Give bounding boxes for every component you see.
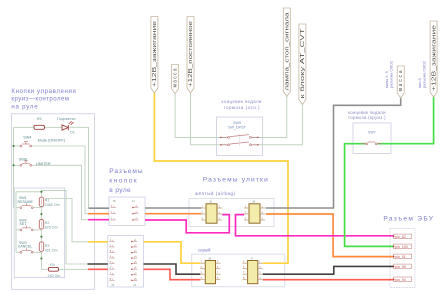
ECU pin_94 bbox=[393, 277, 411, 282]
svg-text:R3: R3 bbox=[45, 244, 50, 248]
wire yellow: +12V ignition flag to gray clockspring D pin1 bbox=[154, 93, 288, 263]
connector B clockspring yellow right bbox=[244, 200, 265, 224]
switch SW7 cruise brake bbox=[361, 130, 382, 144]
box: clockspring yellow airbag connectors bbox=[189, 199, 274, 227]
wire green: +12V ignition right flag through SW7 to ECU pin2 bbox=[378, 97, 434, 144]
wire: R4 branch bbox=[41, 268, 48, 270]
box: connector J5/J4 (wheel buttons top) bbox=[109, 197, 145, 226]
switch SW2 SET bbox=[19, 219, 33, 231]
wire: SW3 stub bbox=[16, 251, 20, 253]
svg-text:J9: J9 bbox=[252, 200, 256, 204]
svg-text:SET: SET bbox=[20, 222, 28, 226]
wire yellow: connector J1 to clockspring C pin1 bbox=[144, 242, 201, 263]
resistor R3 bbox=[39, 242, 57, 253]
box: ECU connector bbox=[390, 229, 415, 288]
svg-text:+12В_зажигание: +12В_зажигание bbox=[152, 21, 158, 87]
svg-text:pin_100: pin_100 bbox=[395, 245, 408, 249]
box: clockspring gray connectors bbox=[192, 254, 285, 287]
wire orange: SW4 to connector J5 pin2 bbox=[88, 213, 109, 215]
svg-text:825 Om: 825 Om bbox=[45, 225, 58, 229]
wire: ladder left rail bbox=[15, 192, 17, 253]
node: R3-R4 junction bbox=[40, 258, 42, 260]
ground flag left (масса) bbox=[172, 65, 179, 94]
connector D clockspring gray right bbox=[243, 256, 263, 283]
resistor R2 bbox=[39, 220, 57, 230]
svg-text:J5: J5 bbox=[113, 199, 117, 203]
svg-text:SW_DPST: SW_DPST bbox=[228, 126, 247, 130]
svg-text:на руле: на руле bbox=[11, 103, 38, 110]
svg-text:к блоку AT_CVT: к блоку AT_CVT bbox=[300, 29, 306, 99]
svg-text:CANCEL: CANCEL bbox=[18, 245, 33, 249]
svg-text:421 Om: 421 Om bbox=[45, 248, 58, 252]
switch SW6 LIMITER bbox=[19, 158, 51, 167]
node: rail junction at SW4 bbox=[13, 145, 15, 147]
caption: SW5 brake pedal main bbox=[222, 99, 263, 110]
svg-text:pin_94: pin_94 bbox=[395, 278, 406, 282]
svg-text:D1: D1 bbox=[70, 130, 75, 134]
resistor R4 bbox=[48, 263, 61, 278]
svg-text:J1: J1 bbox=[133, 283, 137, 287]
heading: wheel button connectors bbox=[109, 168, 143, 194]
box: SW5 brake pedal switch (main) bbox=[217, 117, 263, 156]
switch SW4 Mode bbox=[20, 135, 66, 147]
wire gray: clockspring B pin1 to ground flag right bbox=[266, 98, 401, 208]
wire orange: connector J4 to clockspring A pin2 bbox=[145, 213, 201, 215]
power flag +12V permanent bbox=[187, 17, 194, 94]
svg-text:концевик педали: концевик педали bbox=[222, 99, 263, 104]
svg-text:Mode (ON/OFF): Mode (ON/OFF) bbox=[38, 138, 66, 142]
svg-text:масса: масса bbox=[398, 70, 404, 91]
svg-text:тормоза (круиз.): тормоза (круиз.) bbox=[348, 115, 386, 120]
wire black: ladder common to connector J3 pin5 bbox=[88, 263, 108, 265]
node: R2-R3 junction bbox=[40, 236, 42, 238]
ECU pin_100 bbox=[393, 244, 411, 249]
svg-text:SW6: SW6 bbox=[19, 158, 27, 162]
svg-text:тормоза (осн.): тормоза (осн.) bbox=[224, 105, 261, 110]
connector A clockspring yellow left bbox=[201, 200, 222, 224]
wire: left common rail bbox=[13, 127, 15, 207]
svg-text:+12В_постоянное: +12В_постоянное bbox=[188, 21, 194, 87]
node: ladder top junction bbox=[40, 191, 42, 193]
connector J1 pins bbox=[132, 240, 138, 281]
svg-text:pin_82: pin_82 bbox=[395, 235, 406, 239]
LED D1 backlight bbox=[57, 117, 76, 135]
node: R1-R2 junction bbox=[40, 213, 42, 215]
wire: ladder right rail bbox=[40, 192, 42, 269]
svg-text:лампа_стоп_сигнала: лампа_стоп_сигнала bbox=[284, 12, 290, 90]
svg-text:J7: J7 bbox=[250, 256, 254, 260]
wire red: R4 output to connector J3 pin6 bbox=[88, 268, 108, 270]
svg-text:LIMITER: LIMITER bbox=[36, 162, 51, 166]
wire: SW5 bottom right to AT_CVT flag bbox=[252, 105, 303, 145]
connector C clockspring gray left bbox=[200, 256, 220, 283]
svg-text:R2: R2 bbox=[45, 221, 50, 225]
svg-text:pin_95: pin_95 bbox=[395, 265, 406, 269]
wire red: connector J1 to clockspring C pin4 bbox=[144, 269, 201, 279]
svg-text:R1: R1 bbox=[45, 199, 50, 203]
flag stop lamp bbox=[283, 8, 290, 97]
wire: SW2 stub bbox=[16, 229, 20, 231]
wire pink: clockspring B left pin2 to ECU pin1 bbox=[236, 215, 394, 236]
resistor R5 bbox=[34, 117, 45, 129]
connector J5 pins bbox=[111, 206, 117, 220]
switch SW5 DPST contacts bbox=[220, 121, 258, 146]
caption: SW7 brake pedal cruise bbox=[348, 110, 386, 120]
switch SW1 RESUME bbox=[18, 196, 34, 208]
svg-text:разъема OBD2: разъема OBD2 bbox=[389, 61, 394, 88]
svg-text:SW5: SW5 bbox=[233, 121, 241, 125]
switch SW3 CANCEL bbox=[18, 241, 33, 253]
wire: flag masса-left down to SW5 bbox=[175, 94, 227, 138]
connector J4 pins bbox=[133, 206, 139, 220]
ECU pin_95 bbox=[393, 264, 411, 269]
wire pink: SW6 to connector J5 pin3 bbox=[88, 219, 109, 221]
svg-text:SW7: SW7 bbox=[368, 130, 376, 134]
box: steering wheel buttons module bbox=[12, 114, 95, 289]
wire: flag +12V permanent down to SW5 bbox=[191, 93, 228, 145]
power flag +12V ignition left bbox=[151, 17, 158, 94]
svg-text:2480 Om: 2480 Om bbox=[45, 203, 60, 207]
wire: top branch rail to R5 bbox=[14, 126, 35, 128]
heading: ECU connector bbox=[383, 215, 433, 222]
heading: buttons module bbox=[11, 88, 76, 110]
svg-text:SW4: SW4 bbox=[23, 135, 31, 139]
wire: yellow feeder from R1 tap bbox=[45, 199, 88, 242]
ground flag right (масса) bbox=[397, 66, 404, 98]
wire yellow: ladder tap to connector J3 pin1 bbox=[88, 241, 108, 243]
label: OBD2 pins 4,5 (rotated) bbox=[384, 61, 394, 88]
wire pink: connector J4 pin3 looping under clockspring A to its right pin2 bbox=[145, 215, 229, 233]
power flag +12V ignition right bbox=[430, 21, 438, 97]
wire: ladder top to black feeder bbox=[41, 190, 87, 264]
box: connector J3/J1 (wheel buttons bottom) bbox=[108, 236, 144, 288]
wire gray: backlight to connector J5 pin1 bbox=[89, 207, 110, 209]
label: OBD2 pin 8 (rotated) bbox=[417, 61, 427, 88]
ECU pin_91 bbox=[393, 254, 411, 259]
svg-text:в руле: в руле bbox=[109, 187, 131, 194]
svg-text:Разъемы улитки: Разъемы улитки bbox=[203, 177, 268, 184]
svg-text:Разъемы: Разъемы bbox=[109, 168, 143, 175]
svg-text:разъема OBD2: разъема OBD2 bbox=[422, 61, 427, 88]
wire black: connector J1 to clockspring C pin3 bbox=[144, 264, 201, 274]
wire: SW5 top right to stop lamp flag bbox=[252, 97, 287, 138]
connector J3 pins bbox=[109, 240, 115, 281]
box: resistor ladder inner box bbox=[14, 188, 64, 278]
svg-text:J8: J8 bbox=[208, 256, 212, 260]
node: rail junction at SW6 bbox=[13, 164, 15, 166]
wire red: clockspring D pin4 to ECU pin5 bbox=[263, 279, 394, 281]
svg-text:круиз—контролем: круиз—контролем bbox=[11, 96, 69, 103]
svg-text:R4: R4 bbox=[50, 263, 55, 267]
wire black: clockspring D pin3 to ECU pin4 bbox=[263, 266, 394, 274]
wire: R5 to D1 bbox=[45, 126, 63, 128]
wire: SW1 stub bbox=[16, 207, 20, 209]
ECU pin_82 bbox=[393, 234, 411, 239]
svg-text:+12В_зажигание: +12В_зажигание bbox=[432, 25, 438, 91]
svg-text:RESUME: RESUME bbox=[18, 200, 34, 204]
wire: SW4 branch to orange feeder bbox=[14, 145, 21, 147]
svg-text:pin_91: pin_91 bbox=[395, 255, 406, 259]
svg-text:жёлтый (airbag): жёлтый (airbag) bbox=[195, 191, 236, 196]
wire orange: clockspring B pin2 to ECU pin3 bbox=[266, 214, 394, 257]
svg-text:J3: J3 bbox=[111, 283, 115, 287]
svg-text:J6: J6 bbox=[209, 200, 213, 204]
resistor R1 bbox=[39, 197, 59, 207]
svg-text:Разъем ЭБУ: Разъем ЭБУ bbox=[383, 215, 433, 222]
heading: clockspring connectors bbox=[203, 177, 268, 184]
flag to AT CVT block bbox=[299, 24, 306, 105]
box: SW7 brake pedal switch (cruise) bbox=[353, 123, 391, 154]
wire: SW6 branch to pink feeder bbox=[14, 164, 21, 166]
wire gray: connector J4 to clockspring A pin1 bbox=[145, 207, 201, 209]
svg-text:серый: серый bbox=[198, 248, 211, 253]
svg-text:Подсветка: Подсветка bbox=[57, 117, 76, 121]
svg-text:R5: R5 bbox=[37, 117, 42, 121]
svg-text:J4: J4 bbox=[132, 199, 136, 203]
svg-text:Кнопки управления: Кнопки управления bbox=[11, 88, 76, 95]
wire: D1 to gray feeder bbox=[70, 127, 89, 208]
svg-text:масса: масса bbox=[173, 68, 179, 87]
svg-text:240 Om: 240 Om bbox=[48, 274, 61, 278]
